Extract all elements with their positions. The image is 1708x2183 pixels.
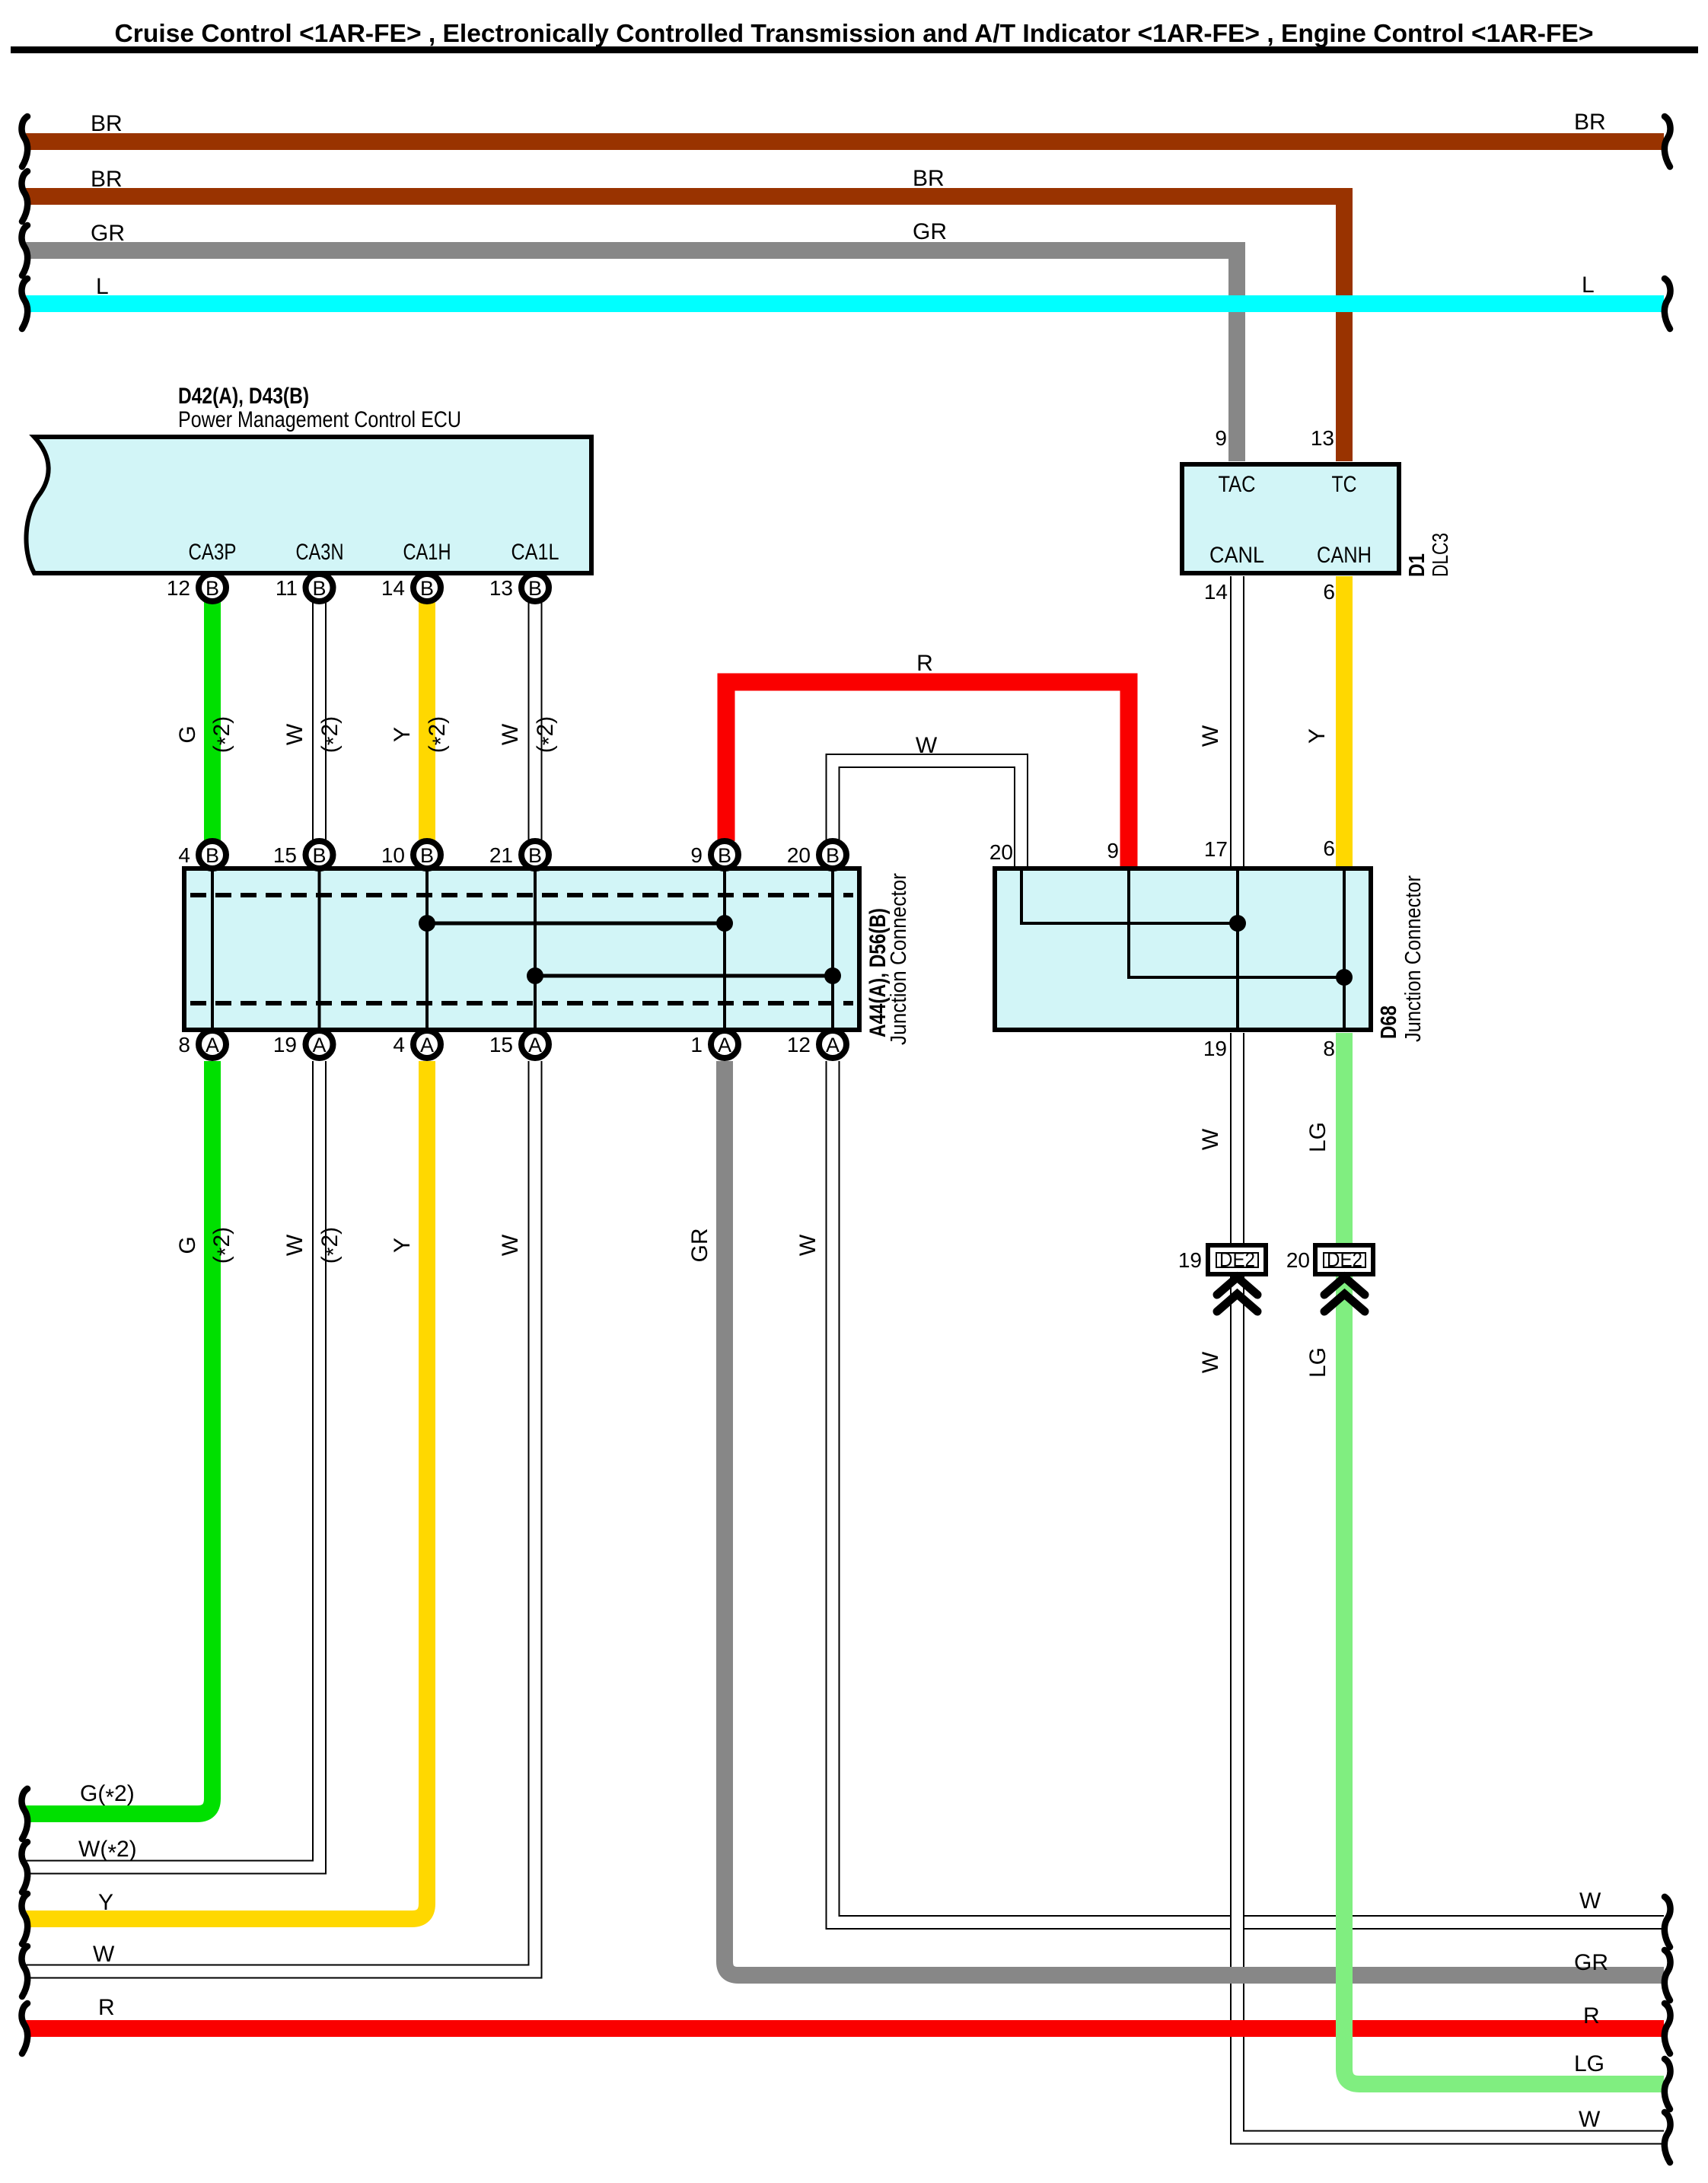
svg-text:D42(A), D43(B): D42(A), D43(B) xyxy=(178,384,309,409)
terminal 12(B) on ECU xyxy=(199,574,226,601)
svg-text:(*2): (*2) xyxy=(209,716,238,753)
svg-text:Y: Y xyxy=(1305,728,1330,744)
svg-text:W(*2): W(*2) xyxy=(78,1837,137,1866)
title underline xyxy=(11,46,1698,53)
svg-text:17: 17 xyxy=(1204,837,1228,861)
wire LG: D68 8 down through DE2 then right to curl xyxy=(1344,1033,1664,2084)
svg-text:A: A xyxy=(826,1034,840,1056)
D68 junction dot 17 column xyxy=(1229,915,1246,932)
svg-text:9: 9 xyxy=(690,843,703,867)
svg-text:4: 4 xyxy=(178,843,190,867)
wire Y: ECU CA1H 14(B) to A44 10(B) xyxy=(419,601,435,841)
svg-text:(*2): (*2) xyxy=(425,716,454,753)
wire-break curl right GR xyxy=(1665,1950,1671,2000)
A44 internal vertical pin 20B-12A xyxy=(831,871,834,1028)
svg-text:TAC: TAC xyxy=(1219,472,1256,497)
svg-text:GR: GR xyxy=(91,221,125,246)
svg-text:A: A xyxy=(528,1034,542,1056)
D68 internal L line pin 20 xyxy=(1021,871,1238,923)
D68 internal L line pin 9 xyxy=(1129,871,1344,977)
svg-text:Y: Y xyxy=(98,1890,113,1915)
svg-text:W: W xyxy=(1198,1351,1223,1373)
svg-text:R: R xyxy=(98,1995,115,2020)
svg-text:R: R xyxy=(916,651,933,676)
wire W thin: ECU CA3N 11(B) to A44 15(B) xyxy=(312,601,327,841)
svg-text:8: 8 xyxy=(1323,1037,1335,1060)
svg-text:R: R xyxy=(1583,2003,1600,2028)
wire W(*2) thin: A44 19(A) down then left to curl xyxy=(26,1061,320,1867)
svg-text:Junction Connector: Junction Connector xyxy=(887,873,911,1045)
wire-break curl left G xyxy=(22,1789,28,1839)
junction connector A44(A), D56(B) box xyxy=(184,868,859,1030)
svg-text:12: 12 xyxy=(787,1033,811,1056)
svg-text:TC: TC xyxy=(1332,472,1357,497)
wire-break curl right BR1 xyxy=(1665,116,1671,167)
D68 junction dot 6 column xyxy=(1336,969,1353,986)
wire-break curl left W xyxy=(22,1946,28,1997)
svg-text:A: A xyxy=(718,1034,731,1056)
wire W thin: A44 15(A) down then left to curl xyxy=(26,1061,535,1971)
connector DE2 no.19 box xyxy=(1208,1245,1266,1274)
svg-text:4: 4 xyxy=(393,1033,405,1056)
svg-text:W: W xyxy=(282,1234,308,1256)
svg-text:A: A xyxy=(206,1034,219,1056)
svg-text:GR: GR xyxy=(687,1229,712,1263)
svg-text:14: 14 xyxy=(1204,580,1228,604)
svg-text:B: B xyxy=(312,844,326,867)
svg-text:W: W xyxy=(498,723,523,745)
connector DE2 no.20 box xyxy=(1315,1245,1373,1274)
wire-break curl right W bottom xyxy=(1665,2112,1671,2162)
wire-break curl left BR1 xyxy=(22,116,28,167)
wire GR top: left curl to DLC3 TAC pin 9 xyxy=(26,250,1237,461)
svg-text:19: 19 xyxy=(1203,1037,1227,1060)
A44 internal dashed bus top xyxy=(190,893,853,897)
svg-text:11: 11 xyxy=(276,576,298,600)
wire G: A44 8(A) down then left to curl xyxy=(26,1061,212,1814)
svg-text:W: W xyxy=(498,1234,523,1256)
svg-text:CA3N: CA3N xyxy=(296,540,344,565)
wire-break curl right LG xyxy=(1665,2059,1671,2109)
connector DE2 no.19 chevron arrows xyxy=(1217,1277,1257,1311)
svg-text:10: 10 xyxy=(381,843,405,867)
svg-text:DLC3: DLC3 xyxy=(1429,533,1453,577)
terminal 1(A) on A44 xyxy=(711,1031,738,1058)
svg-text:L: L xyxy=(96,274,109,299)
wire Y: A44 4(A) down then left to curl xyxy=(26,1061,427,1919)
svg-text:6: 6 xyxy=(1323,837,1335,860)
svg-text:12: 12 xyxy=(167,576,190,600)
A44 junction dot at 10B column xyxy=(419,915,435,932)
svg-text:W: W xyxy=(916,733,938,758)
svg-text:G: G xyxy=(175,1236,200,1254)
svg-text:D68: D68 xyxy=(1377,1005,1401,1039)
wire-break curl left BR2 xyxy=(22,171,28,221)
ECU D42(A),D43(B) Power Management Control ECU box xyxy=(26,437,591,573)
A44 junction dot at 20B column xyxy=(824,967,841,984)
wire R bottom full-width xyxy=(26,2020,1664,2037)
svg-text:19: 19 xyxy=(1178,1248,1202,1272)
svg-text:LG: LG xyxy=(1574,2051,1604,2076)
svg-text:W: W xyxy=(1198,1128,1223,1150)
wire-break curl left W(*2) xyxy=(22,1842,28,1892)
svg-text:B: B xyxy=(718,844,731,867)
svg-text:20: 20 xyxy=(787,843,811,867)
junction connector D68 box xyxy=(995,868,1371,1030)
svg-text:BR: BR xyxy=(91,111,123,136)
A44 internal dashed bus bottom xyxy=(190,1001,853,1005)
svg-text:13: 13 xyxy=(1311,426,1334,450)
A44 internal vertical pin 10B-4A xyxy=(425,871,429,1028)
terminal 20(B) on A44 xyxy=(819,841,846,868)
svg-text:CANL: CANL xyxy=(1209,543,1264,568)
svg-text:W: W xyxy=(1579,2107,1601,2132)
terminal 19(A) on A44 xyxy=(306,1031,333,1058)
svg-text:20: 20 xyxy=(989,840,1013,864)
svg-text:W: W xyxy=(1579,1888,1601,1914)
terminal 4(B) on A44 xyxy=(199,841,226,868)
terminal 4(A) on A44 xyxy=(413,1031,441,1058)
wire R pi-shape: A44 9(B) to D68 9 xyxy=(726,682,1129,866)
svg-text:A: A xyxy=(420,1034,434,1056)
svg-text:W: W xyxy=(795,1234,821,1256)
wire G: ECU CA3P 12(B) to A44 4(B) xyxy=(204,601,221,841)
svg-text:B: B xyxy=(826,844,840,867)
svg-text:L: L xyxy=(1582,272,1595,298)
svg-text:CA1L: CA1L xyxy=(511,540,559,565)
A44 internal vertical pin 4B-8A xyxy=(211,871,214,1028)
wire W thin: DLC3 CANL 14 to D68 17 xyxy=(1230,576,1244,866)
wire W thin: D68 19 down through DE2 to bottom-right curl xyxy=(1238,1033,1665,2137)
svg-text:W: W xyxy=(1198,725,1223,747)
svg-text:21: 21 xyxy=(489,843,513,867)
wire-break curl right L xyxy=(1665,279,1671,329)
svg-text:19: 19 xyxy=(273,1033,297,1056)
svg-text:GR: GR xyxy=(1574,1950,1608,1975)
wire W pi-shape: A44 20(B) to D68 20 xyxy=(833,761,1021,867)
svg-text:CA1H: CA1H xyxy=(403,540,451,565)
wire BR top full-width xyxy=(26,133,1664,150)
svg-text:8: 8 xyxy=(178,1033,190,1056)
svg-text:B: B xyxy=(528,577,542,600)
svg-text:14: 14 xyxy=(381,576,405,600)
svg-text:D1: D1 xyxy=(1405,553,1429,577)
svg-text:Y: Y xyxy=(390,1238,415,1253)
A44 internal vertical pin 21B-15A xyxy=(534,871,537,1028)
terminal 12(A) on A44 xyxy=(819,1031,846,1058)
svg-text:LG: LG xyxy=(1305,1122,1330,1152)
svg-text:6: 6 xyxy=(1323,580,1335,604)
svg-text:20: 20 xyxy=(1286,1248,1310,1272)
connector D1 DLC3 box xyxy=(1182,464,1399,573)
svg-text:13: 13 xyxy=(489,576,513,600)
A44 internal vertical pin 15B-19A xyxy=(318,871,321,1028)
svg-text:G(*2): G(*2) xyxy=(80,1781,135,1810)
svg-text:(*2): (*2) xyxy=(209,1227,238,1264)
svg-text:(*2): (*2) xyxy=(317,716,346,753)
svg-text:BR: BR xyxy=(1574,110,1606,135)
D68 internal vertical pin 6-8 xyxy=(1343,871,1346,1028)
svg-text:A: A xyxy=(312,1034,326,1056)
A44 internal bus line 21B to 20B xyxy=(535,974,833,978)
terminal 15(A) on A44 xyxy=(521,1031,549,1058)
A44 junction dot at 21B column xyxy=(527,967,543,984)
svg-text:BR: BR xyxy=(913,166,945,191)
wire GR: A44 1(A) down then right to curl xyxy=(725,1061,1664,1975)
svg-text:G: G xyxy=(175,725,200,743)
svg-text:BR: BR xyxy=(91,167,123,192)
wire L cyan full-width xyxy=(26,295,1664,312)
svg-text:Power Management Control ECU: Power Management Control ECU xyxy=(178,407,461,432)
connector DE2 no.20 chevron arrows xyxy=(1324,1277,1365,1311)
wire Y: DLC3 CANH 6 to D68 6 xyxy=(1336,576,1353,866)
wire-break curl right W xyxy=(1665,1897,1671,1947)
A44 junction dot at 9B column xyxy=(716,915,733,932)
wire-break curl left Y xyxy=(22,1894,28,1944)
svg-text:W: W xyxy=(282,723,308,745)
terminal 13(B) on ECU xyxy=(521,574,549,601)
terminal 21(B) on A44 xyxy=(521,841,549,868)
terminal 15(B) on A44 xyxy=(306,841,333,868)
svg-text:15: 15 xyxy=(489,1033,513,1056)
A44 internal vertical pin 9B-1A xyxy=(723,871,726,1028)
svg-text:B: B xyxy=(528,844,542,867)
svg-text:1: 1 xyxy=(690,1033,703,1056)
terminal 14(B) on ECU xyxy=(413,574,441,601)
svg-text:(*2): (*2) xyxy=(317,1227,346,1264)
svg-text:GR: GR xyxy=(913,219,947,244)
svg-text:9: 9 xyxy=(1215,426,1227,450)
wire-break curl left R xyxy=(22,2003,28,2054)
svg-text:B: B xyxy=(206,577,219,600)
svg-text:B: B xyxy=(420,577,434,600)
svg-text:9: 9 xyxy=(1107,839,1119,862)
svg-text:CA3P: CA3P xyxy=(189,540,237,565)
terminal 8(A) on A44 xyxy=(199,1031,226,1058)
wire-break curl left GR xyxy=(22,225,28,276)
terminal 9(B) on A44 xyxy=(711,841,738,868)
wire-break curl right R xyxy=(1665,2003,1671,2054)
terminal 11(B) on ECU xyxy=(306,574,333,601)
svg-text:B: B xyxy=(206,844,219,867)
svg-text:DE2: DE2 xyxy=(1219,1248,1255,1271)
wire BR second: left curl to DLC3 TC pin 13 xyxy=(26,196,1344,461)
wire W thin: A44 12(A) down then right to curl xyxy=(833,1061,1664,1923)
svg-text:LG: LG xyxy=(1305,1347,1330,1378)
svg-text:Cruise Control <1AR-FE> , Elec: Cruise Control <1AR-FE> , Electronically… xyxy=(115,20,1594,48)
wire-break curl left L xyxy=(22,279,28,329)
A44 internal bus line 10B to 9B xyxy=(427,922,725,926)
svg-text:Junction Connector: Junction Connector xyxy=(1401,875,1426,1042)
svg-text:CANH: CANH xyxy=(1317,543,1372,568)
svg-text:B: B xyxy=(312,577,326,600)
svg-text:W: W xyxy=(93,1942,115,1967)
svg-text:DE2: DE2 xyxy=(1327,1248,1362,1271)
wire W thin: ECU CA1L 13(B) to A44 21(B) xyxy=(528,601,543,841)
svg-text:B: B xyxy=(420,844,434,867)
terminal 10(B) on A44 xyxy=(413,841,441,868)
svg-text:15: 15 xyxy=(273,843,297,867)
svg-text:Y: Y xyxy=(390,727,415,742)
D68 internal vertical pin 17-19 xyxy=(1236,871,1239,1028)
svg-text:(*2): (*2) xyxy=(533,716,562,753)
